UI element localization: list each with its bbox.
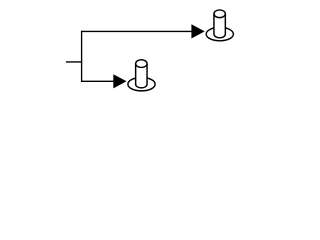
arrowhead: bottom branch (solid, pointing right) bbox=[113, 74, 126, 88]
wire: top branch horizontal segment bbox=[81, 30, 192, 32]
terminal pin symbol: bottom (cylinder barrel with top ellipse and bottom arc) bbox=[136, 60, 147, 88]
arrowhead: top branch (solid, pointing right) bbox=[191, 24, 204, 38]
wire: input stub from left bbox=[66, 61, 82, 63]
terminal pin symbol: bottom (base pad ellipse) bbox=[128, 78, 155, 91]
wire: bottom branch horizontal segment bbox=[81, 80, 114, 82]
wire: vertical bus segment bbox=[81, 31, 83, 82]
terminal pin symbol: top (cylinder barrel with top ellipse and bottom arc) bbox=[214, 10, 225, 38]
terminal pin symbol: top (base pad ellipse) bbox=[206, 27, 233, 40]
